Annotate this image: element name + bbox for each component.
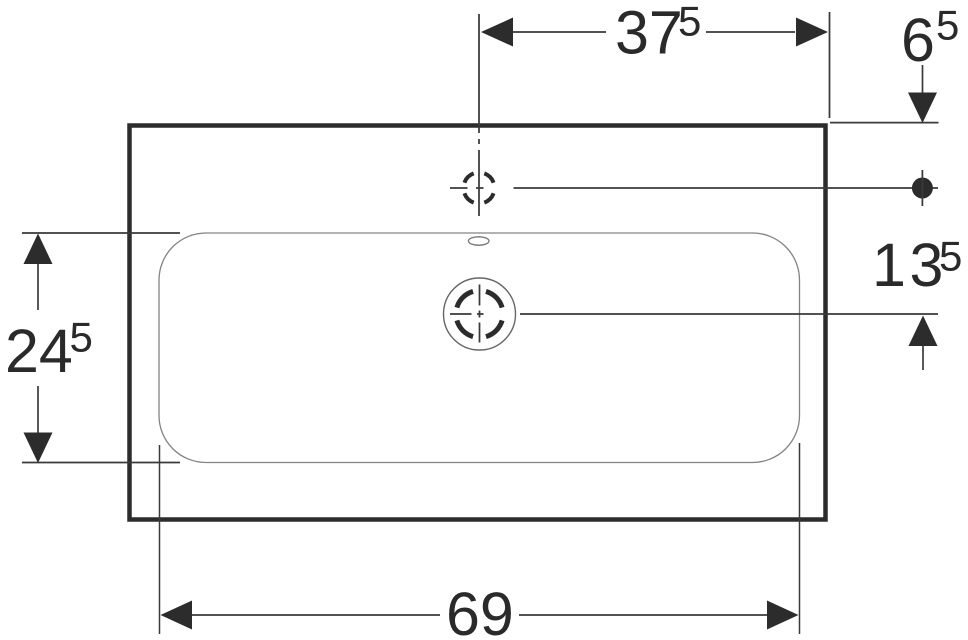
dim 6.5 extension line	[830, 122, 939, 124]
dim 69 right arrow	[767, 601, 799, 630]
faucet vertical centerline	[478, 14, 480, 216]
svg-text:1: 1	[872, 231, 906, 299]
svg-text:6: 6	[901, 6, 935, 74]
drain vertical centerline	[479, 285, 481, 343]
dim 69 left extension line	[159, 445, 161, 634]
svg-text:24: 24	[5, 317, 73, 385]
svg-text:69: 69	[446, 580, 514, 640]
dim 13.5 dot tick	[921, 170, 923, 206]
svg-text:5: 5	[939, 233, 962, 280]
dim 13.5 up arrow	[909, 316, 938, 347]
washbasin outer rectangle	[130, 126, 826, 520]
dim 37.5 dimension line	[513, 31, 795, 33]
dim 13.5 reference dot	[912, 178, 933, 199]
dim 6.5 down arrow	[908, 93, 937, 124]
dim 24.5 lower tail	[37, 386, 39, 433]
overflow slot ellipse	[468, 237, 489, 245]
dim 37.5 left arrow	[481, 18, 513, 47]
dim 24.5 bottom extension line	[22, 462, 180, 464]
svg-text:37: 37	[615, 0, 683, 67]
dim 6.5 stem	[922, 65, 924, 93]
dim 13.5 arrow tail	[922, 346, 924, 370]
dim 24.5 top extension line	[22, 232, 180, 234]
svg-text:5: 5	[936, 2, 959, 49]
faucet hole circle	[464, 173, 493, 202]
dim 24.5 upper tail	[37, 264, 39, 310]
dim 37.5 right arrow	[796, 18, 828, 47]
drain outer circle	[444, 278, 516, 350]
dim 69 right extension line	[799, 443, 801, 634]
dim 69 left arrow	[161, 601, 193, 630]
dim 69 dimension line	[192, 614, 768, 616]
dim 24.5 down arrow	[24, 433, 53, 464]
svg-text:5: 5	[678, 0, 701, 45]
svg-text:5: 5	[70, 314, 93, 361]
basin inner rounded rectangle	[159, 233, 800, 463]
drain inner circle	[457, 291, 502, 336]
drain horizontal centerline	[450, 313, 938, 315]
dim 37.5 right extension line	[829, 12, 831, 118]
dim 24.5 up arrow	[24, 234, 53, 265]
faucet horizontal centerline	[450, 187, 938, 189]
